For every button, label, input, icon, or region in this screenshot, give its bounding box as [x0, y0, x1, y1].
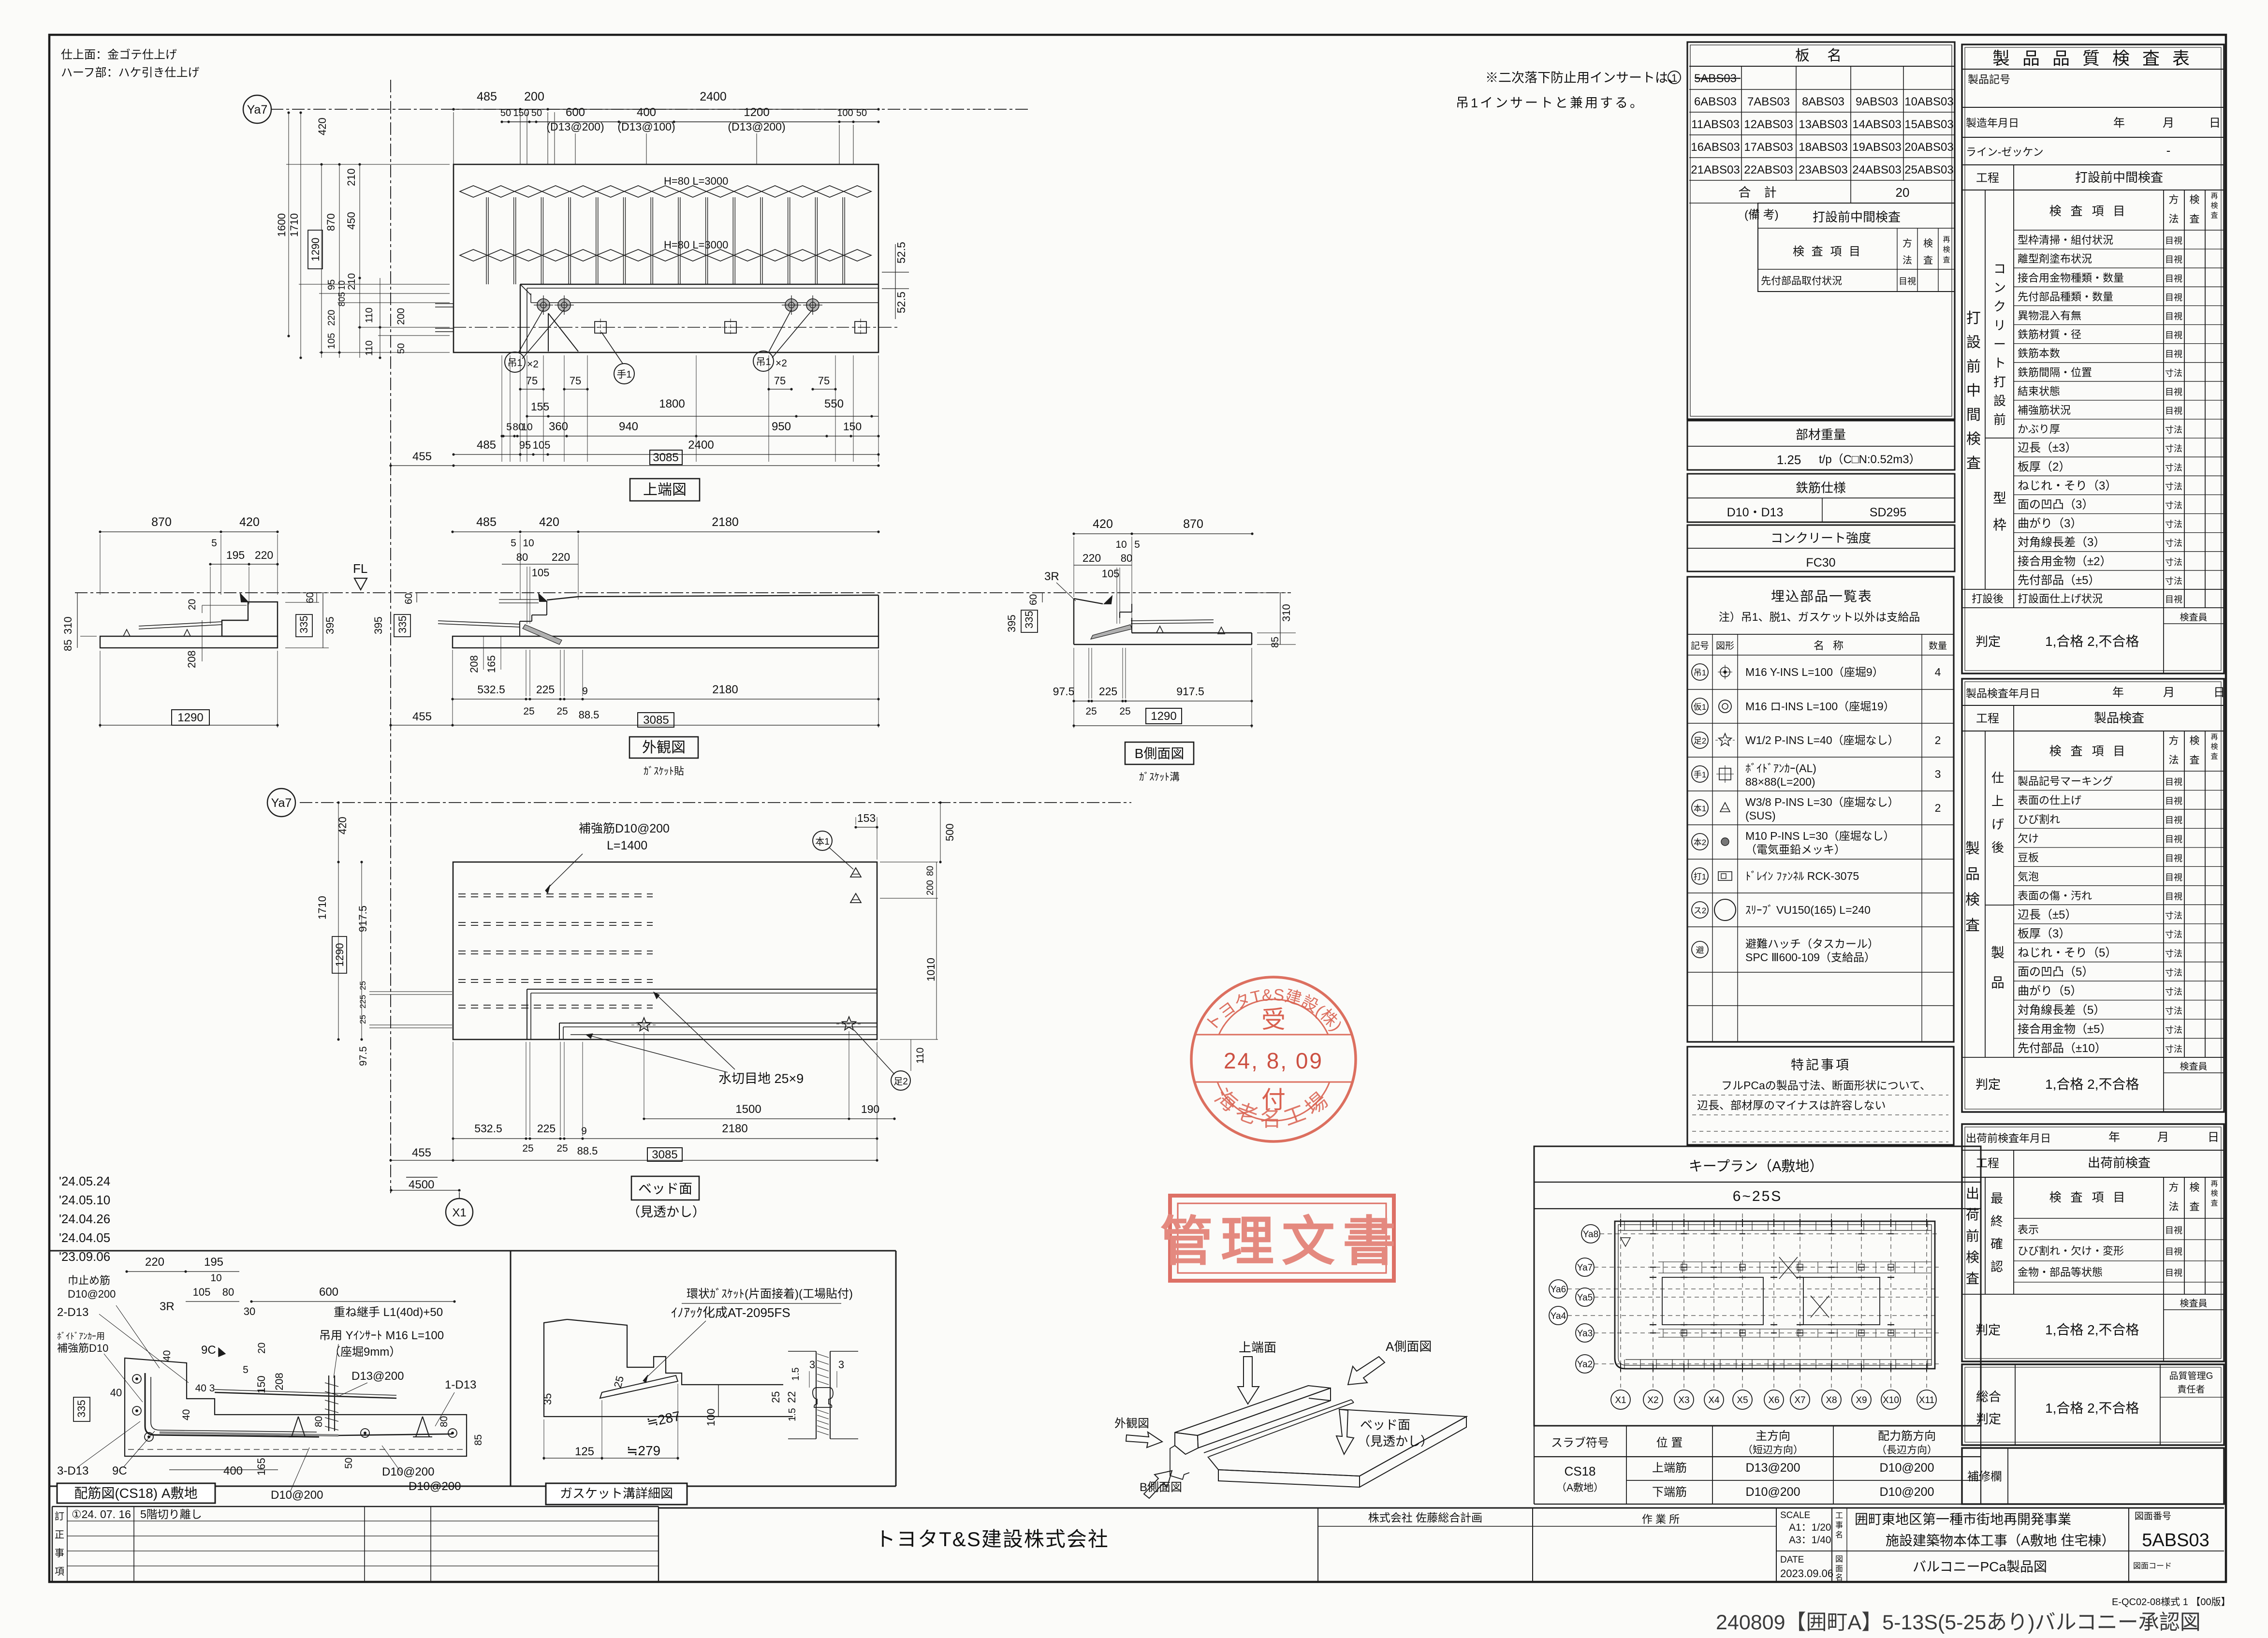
svg-text:方: 方 [2169, 735, 2179, 746]
svg-text:80: 80 [439, 1416, 450, 1427]
svg-text:ねじれ・そり（5）: ねじれ・そり（5） [2018, 947, 2117, 960]
svg-text:532.5: 532.5 [477, 683, 505, 696]
svg-text:査: 査 [2210, 1199, 2218, 1207]
svg-text:165: 165 [255, 1458, 267, 1476]
svg-text:5: 5 [243, 1364, 249, 1375]
svg-text:153: 153 [857, 812, 876, 824]
svg-text:キープラン（A敷地）: キープラン（A敷地） [1689, 1158, 1824, 1174]
svg-text:25: 25 [556, 1143, 568, 1154]
svg-text:395: 395 [372, 616, 384, 634]
svg-text:コ: コ [1993, 262, 2006, 276]
svg-text:FC30: FC30 [1806, 556, 1835, 570]
svg-text:Ya7: Ya7 [247, 103, 268, 117]
svg-text:補強筋D10: 補強筋D10 [57, 1342, 108, 1354]
svg-text:外観図: 外観図 [642, 740, 686, 756]
svg-text:D13@200: D13@200 [1746, 1461, 1800, 1475]
svg-text:9C: 9C [112, 1464, 127, 1477]
overall judgement box [1962, 1364, 2224, 1445]
svg-text:208: 208 [273, 1373, 285, 1390]
svg-text:310: 310 [62, 616, 74, 634]
svg-text:(SUS): (SUS) [1745, 809, 1776, 822]
svg-text:辺長（±5）: 辺長（±5） [2018, 908, 2077, 921]
svg-text:確: 確 [1990, 1237, 2003, 1251]
svg-text:D10@200: D10@200 [1880, 1461, 1934, 1475]
svg-text:220: 220 [255, 549, 273, 561]
svg-text:1290: 1290 [1151, 710, 1176, 723]
svg-text:1290: 1290 [309, 238, 322, 262]
svg-text:22: 22 [786, 1391, 798, 1403]
svg-text:先付部品（±5）: 先付部品（±5） [2018, 574, 2100, 587]
svg-text:避: 避 [1696, 946, 1704, 955]
svg-text:（長辺方向）: （長辺方向） [1876, 1445, 1937, 1456]
left section view right dims 60/335/395 [285, 592, 336, 648]
svg-text:項: 項 [55, 1566, 64, 1577]
svg-text:目視: 目視 [2165, 331, 2182, 340]
svg-text:目視: 目視 [2165, 595, 2182, 604]
svg-text:検: 検 [2190, 735, 2200, 746]
svg-text:寸法: 寸法 [2165, 930, 2182, 939]
grid bubble Ya7 top [243, 95, 271, 123]
svg-text:出荷前検査: 出荷前検査 [2088, 1155, 2151, 1170]
svg-text:打: 打 [1966, 310, 1981, 326]
svg-text:査: 査 [1923, 255, 1933, 266]
svg-text:870: 870 [151, 515, 172, 529]
svg-text:240809【囲町A】5-13S(5-25あり)バルコニー承: 240809【囲町A】5-13S(5-25あり)バルコニー承認図 [1716, 1611, 2201, 1634]
svg-text:鉄筋仕様: 鉄筋仕様 [1796, 481, 1846, 495]
panel name table outer box [1687, 42, 1955, 419]
svg-text:本1: 本1 [815, 836, 830, 847]
svg-text:5ABS03: 5ABS03 [2142, 1530, 2209, 1550]
svg-text:月: 月 [2163, 117, 2174, 130]
svg-text:目視: 目視 [2165, 892, 2182, 901]
svg-text:Ya8: Ya8 [1583, 1229, 1598, 1240]
svg-text:2180: 2180 [712, 515, 739, 529]
rebar detail concrete outline [125, 1358, 467, 1456]
svg-text:ｶﾞｽｹｯﾄ溝: ｶﾞｽｹｯﾄ溝 [1139, 772, 1180, 783]
svg-text:20: 20 [1896, 185, 1910, 200]
rebar spec box [1687, 474, 1955, 522]
svg-text:接合用金物種類・数量: 接合用金物種類・数量 [2018, 272, 2124, 284]
plan bottom dimension row 5/80/10/360/940/950/150 [500, 420, 879, 438]
svg-text:W3/8 P-INS L=30（座堀なし）: W3/8 P-INS L=30（座堀なし） [1745, 796, 1899, 808]
svg-text:検査員: 検査員 [2180, 1298, 2207, 1309]
svg-text:ス2: ス2 [1694, 906, 1706, 915]
svg-text:位 置: 位 置 [1656, 1436, 1683, 1449]
note about secondary-fall-prevention insert [1456, 71, 1681, 110]
svg-text:88.5: 88.5 [579, 709, 600, 721]
svg-text:避難ハッチ（タスカール）: 避難ハッチ（タスカール） [1745, 937, 1879, 950]
svg-text:工程: 工程 [1976, 712, 1999, 725]
svg-text:5: 5 [506, 422, 512, 433]
svg-text:仕: 仕 [1991, 771, 2004, 785]
svg-text:査: 査 [1966, 1271, 1979, 1286]
svg-text:水切目地 25×9: 水切目地 25×9 [718, 1071, 804, 1086]
svg-text:220: 220 [1083, 552, 1101, 564]
svg-text:5: 5 [1134, 539, 1140, 550]
svg-text:鉄筋本数: 鉄筋本数 [2018, 348, 2060, 360]
svg-text:間: 間 [1966, 407, 1981, 423]
isometric arrow and label B-sokumenzu [1140, 1471, 1182, 1498]
svg-text:前: 前 [1966, 359, 1981, 375]
svg-text:設: 設 [1966, 335, 1981, 351]
svg-text:寸法: 寸法 [2165, 557, 2182, 567]
B side view left dims 60/335/395 [1006, 593, 1042, 632]
svg-text:対角線長差（5）: 対角線長差（5） [2018, 1004, 2105, 1017]
svg-text:目視: 目視 [2165, 873, 2182, 882]
plan bottom witness lines [502, 355, 878, 462]
svg-text:SCALE: SCALE [1780, 1510, 1810, 1521]
svg-text:寸法: 寸法 [2165, 949, 2182, 959]
svg-text:先付部品（±10）: 先付部品（±10） [2018, 1042, 2107, 1055]
svg-text:420: 420 [539, 515, 559, 529]
svg-text:目視: 目視 [2165, 1268, 2182, 1278]
svg-text:異物混入有無: 異物混入有無 [2018, 310, 2081, 322]
svg-text:4500: 4500 [409, 1178, 434, 1191]
svg-text:1200: 1200 [744, 106, 769, 119]
svg-text:25: 25 [358, 981, 367, 990]
svg-text:24, 8, 09: 24, 8, 09 [1224, 1048, 1323, 1073]
svg-text:X2: X2 [1647, 1395, 1658, 1405]
tsuri1 x2 leader label right [753, 309, 813, 371]
revision table [52, 1506, 658, 1581]
svg-text:前: 前 [1993, 412, 2006, 427]
svg-text:査: 査 [2190, 214, 2200, 225]
svg-text:※二次落下防止用インサートは、: ※二次落下防止用インサートは、 [1485, 71, 1681, 85]
svg-text:検: 検 [1966, 431, 1981, 447]
svg-text:寸法: 寸法 [2165, 463, 2182, 472]
svg-text:品: 品 [1965, 866, 1980, 882]
svg-text:600: 600 [319, 1286, 338, 1299]
bed view ashi2 leader [854, 1030, 910, 1090]
svg-text:法: 法 [2169, 1201, 2179, 1213]
svg-text:ベッド面: ベッド面 [1360, 1418, 1410, 1432]
svg-text:85: 85 [473, 1434, 484, 1446]
plan view rebar diamond row 1 H=80 L=3000 [460, 175, 871, 197]
svg-text:1,合格 2,不合格: 1,合格 2,不合格 [2045, 634, 2139, 649]
svg-text:目視: 目視 [2165, 312, 2182, 322]
svg-text:420: 420 [239, 515, 260, 529]
svg-text:埋込部品一覧表: 埋込部品一覧表 [1771, 589, 1873, 604]
svg-text:X10: X10 [1883, 1395, 1899, 1405]
svg-text:日: 日 [2208, 1131, 2219, 1144]
svg-text:L=1400: L=1400 [607, 839, 647, 852]
svg-text:図面番号: 図面番号 [2135, 1511, 2171, 1521]
plan bottom dimension row 485/95/105/2400 [452, 439, 879, 456]
svg-text:再: 再 [2210, 1180, 2218, 1188]
svg-text:52.5: 52.5 [895, 242, 907, 263]
svg-text:25: 25 [1085, 706, 1097, 717]
svg-text:220: 220 [145, 1256, 164, 1269]
rebar detail dims top [125, 1256, 455, 1378]
svg-text:打設後: 打設後 [1972, 593, 2004, 605]
svg-text:9ABS03: 9ABS03 [1856, 95, 1898, 108]
embedded parts list table [1687, 577, 1954, 1042]
svg-text:455: 455 [412, 710, 432, 723]
svg-text:Ya7: Ya7 [1577, 1263, 1593, 1273]
svg-text:805: 805 [337, 292, 347, 307]
svg-text:上: 上 [1991, 794, 2004, 808]
svg-text:165: 165 [485, 655, 497, 673]
svg-text:1600: 1600 [276, 213, 288, 237]
svg-text:Ya2: Ya2 [1577, 1360, 1593, 1370]
isometric arrow and label bed-men [1336, 1409, 1433, 1454]
svg-text:X1: X1 [452, 1206, 466, 1219]
rebar detail bar section circles [132, 1375, 457, 1441]
grid line Ya7 (bed view chain line) [300, 802, 1131, 803]
svg-text:2400: 2400 [688, 439, 714, 452]
svg-text:870: 870 [1183, 517, 1203, 531]
left section view bottom dim 1290 [99, 651, 278, 728]
svg-text:1,合格 2,不合格: 1,合格 2,不合格 [2045, 1077, 2139, 1092]
svg-text:13ABS03: 13ABS03 [1799, 118, 1847, 131]
svg-text:日: 日 [2213, 686, 2225, 699]
svg-text:目視: 目視 [2165, 815, 2182, 825]
svg-text:105: 105 [532, 567, 550, 579]
plan view vertical rebars [486, 197, 845, 284]
svg-text:寸法: 寸法 [2165, 1044, 2182, 1054]
svg-text:150: 150 [843, 420, 862, 433]
svg-text:接合用金物（±2）: 接合用金物（±2） [2018, 555, 2112, 568]
svg-text:日: 日 [2209, 117, 2221, 130]
svg-text:195: 195 [204, 1256, 223, 1269]
svg-text:80: 80 [222, 1286, 234, 1298]
svg-text:'24.04.26: '24.04.26 [59, 1212, 110, 1226]
svg-text:検査員: 検査員 [2180, 1061, 2207, 1072]
svg-text:X11: X11 [1919, 1395, 1934, 1405]
isometric sketch of panel [1170, 1386, 1466, 1487]
svg-text:1500: 1500 [735, 1103, 761, 1116]
special notes box [1687, 1047, 1954, 1145]
svg-text:コンクリート強度: コンクリート強度 [1771, 531, 1871, 545]
svg-text:ク: ク [1993, 299, 2006, 314]
plan view rebar diamond row 2 H=80 L=3000 [460, 239, 871, 261]
svg-text:法: 法 [2169, 214, 2179, 225]
svg-text:75: 75 [774, 375, 786, 387]
gasket detail left profile [544, 1319, 793, 1417]
svg-text:対角線長差（3）: 対角線長差（3） [2018, 536, 2105, 549]
svg-text:5: 5 [511, 538, 516, 549]
isometric arrow and label gaikanzu [1114, 1417, 1162, 1448]
svg-text:検: 検 [2210, 743, 2218, 751]
svg-text:t/p（C□N:0.52m3）: t/p（C□N:0.52m3） [1819, 453, 1921, 466]
svg-text:3: 3 [809, 1359, 815, 1371]
svg-text:105: 105 [193, 1286, 211, 1298]
svg-text:600: 600 [566, 106, 585, 119]
svg-text:3085: 3085 [652, 1148, 677, 1161]
svg-text:×2: ×2 [776, 358, 787, 369]
svg-text:225: 225 [536, 683, 555, 696]
svg-text:上端筋: 上端筋 [1652, 1462, 1687, 1475]
svg-text:面の凹凸（3）: 面の凹凸（3） [2018, 498, 2093, 512]
svg-text:ー: ー [1993, 337, 2006, 351]
product quality inspection table section 3 (pre-shipment) [1962, 1124, 2224, 1361]
svg-text:年: 年 [2113, 117, 2125, 130]
svg-text:'24.05.24: '24.05.24 [59, 1174, 110, 1188]
title block form code note [2112, 1596, 2231, 1608]
svg-text:395: 395 [324, 616, 336, 634]
svg-text:型枠清掃・組付状況: 型枠清掃・組付状況 [2018, 234, 2113, 246]
svg-text:×2: ×2 [527, 359, 539, 370]
bed view right dims 153/500/200/80/1010/110 [854, 801, 956, 1071]
B side view body [1074, 596, 1252, 644]
svg-text:検: 検 [2190, 194, 2200, 205]
B side view bottom dim 1290 [1072, 648, 1253, 728]
svg-text:気泡: 気泡 [2018, 871, 2039, 883]
svg-text:検 査 項 目: 検 査 項 目 [2049, 1191, 2128, 1204]
svg-text:フルPCaの製品寸法、断面形状について、: フルPCaの製品寸法、断面形状について、 [1721, 1079, 1931, 1092]
svg-text:離型剤塗布状況: 離型剤塗布状況 [2018, 253, 2092, 265]
plan top dimension row 50/150/50/600/400/1200/100/50 [500, 106, 880, 133]
svg-text:巾止め筋: 巾止め筋 [68, 1274, 110, 1287]
svg-text:1010: 1010 [925, 958, 937, 981]
svg-text:80: 80 [1121, 552, 1132, 564]
svg-text:225: 225 [537, 1122, 556, 1135]
svg-text:1,合格 2,不合格: 1,合格 2,不合格 [2045, 1401, 2139, 1416]
gasket detail dims [541, 1375, 717, 1460]
svg-text:吊1インサートと兼用する。: 吊1インサートと兼用する。 [1456, 96, 1645, 110]
svg-text:法: 法 [1902, 255, 1912, 266]
svg-text:97.5: 97.5 [1053, 685, 1075, 698]
svg-text:製品記号: 製品記号 [1968, 73, 2010, 86]
svg-text:板 名: 板 名 [1795, 48, 1848, 64]
svg-text:10: 10 [337, 280, 347, 290]
FL chain line across section views [75, 592, 1291, 593]
bed view left dims [316, 801, 452, 1066]
svg-text:検 査 項 目: 検 査 項 目 [2049, 205, 2128, 218]
gasket detail enclosure box [511, 1251, 896, 1486]
grid bubble Ya7 bed view [267, 789, 295, 817]
svg-text:補修欄: 補修欄 [1967, 1470, 2002, 1483]
svg-text:E-QC02-08様式 1 【00版】: E-QC02-08様式 1 【00版】 [2112, 1596, 2231, 1608]
svg-text:検 査 項 目: 検 査 項 目 [1793, 245, 1862, 258]
front elevation top dims 485/420/2180 [451, 515, 879, 624]
bed view mizukiri joint label [586, 992, 804, 1086]
svg-text:仕上面：金ゴテ仕上げ: 仕上面：金ゴテ仕上げ [61, 48, 177, 61]
svg-text:220: 220 [326, 310, 337, 326]
svg-text:50: 50 [856, 108, 867, 118]
key plan interior ticks [1618, 1221, 1931, 1369]
svg-text:485: 485 [476, 515, 497, 529]
svg-text:打設前中間検査: 打設前中間検査 [2075, 170, 2163, 185]
svg-text:1710: 1710 [288, 213, 300, 237]
svg-text:Ya6: Ya6 [1551, 1285, 1566, 1295]
svg-text:主方向: 主方向 [1756, 1430, 1790, 1443]
svg-text:品: 品 [1991, 975, 2005, 990]
rebar detail title box [57, 1483, 215, 1503]
svg-text:げ: げ [1991, 817, 2004, 832]
svg-text:板厚（2）: 板厚（2） [2018, 460, 2070, 473]
plan bottom dimension row 155/1800/550 [526, 397, 878, 418]
control document stamp [1160, 1196, 1404, 1281]
received stamp circular [1191, 977, 1356, 1141]
hanging insert tsuri1 symbols in plan [534, 295, 822, 315]
gasket detail title box [546, 1483, 687, 1505]
svg-text:25: 25 [523, 706, 534, 717]
svg-text:85: 85 [1270, 637, 1281, 648]
B side view 3R label [1044, 570, 1076, 601]
svg-text:D10@200: D10@200 [271, 1489, 323, 1502]
gasket detail labels [643, 1287, 853, 1383]
title block scale and date [1780, 1510, 1843, 1582]
svg-text:25ABS03: 25ABS03 [1904, 163, 1953, 176]
bed view outline [453, 862, 877, 1039]
svg-text:目視: 目視 [2165, 834, 2182, 844]
svg-text:寸法: 寸法 [2165, 501, 2182, 511]
svg-text:本2: 本2 [1694, 838, 1706, 847]
svg-text:1: 1 [1671, 72, 1677, 84]
svg-text:（座堀9mm）: （座堀9mm） [329, 1345, 401, 1359]
svg-text:11ABS03: 11ABS03 [1691, 118, 1740, 131]
svg-text:先付部品種類・数量: 先付部品種類・数量 [2018, 291, 2113, 303]
svg-text:1710: 1710 [316, 896, 328, 920]
svg-text:SD295: SD295 [1870, 506, 1906, 519]
svg-text:製品検査: 製品検査 [2094, 711, 2144, 725]
svg-text:リ: リ [1993, 318, 2006, 333]
svg-text:製: 製 [1965, 841, 1980, 857]
svg-text:210: 210 [346, 273, 357, 290]
svg-text:前: 前 [1966, 1228, 1979, 1243]
svg-text:40 3: 40 3 [195, 1383, 215, 1394]
svg-text:査: 査 [2190, 755, 2200, 766]
svg-text:110: 110 [915, 1048, 926, 1064]
svg-text:付: 付 [1261, 1086, 1286, 1113]
svg-text:打設前中間検査: 打設前中間検査 [1813, 210, 1901, 224]
svg-text:19ABS03: 19ABS03 [1852, 141, 1901, 154]
svg-text:検: 検 [1943, 246, 1950, 254]
title block frame [658, 1508, 2224, 1582]
svg-text:208: 208 [468, 655, 480, 673]
svg-text:判定: 判定 [1976, 1412, 2001, 1426]
plan view title box jouzu [630, 479, 700, 501]
svg-text:2180: 2180 [722, 1122, 747, 1135]
svg-text:195: 195 [226, 549, 245, 561]
svg-text:455: 455 [412, 450, 432, 463]
svg-text:80: 80 [516, 551, 528, 563]
svg-text:査: 査 [1943, 256, 1950, 264]
svg-text:数量: 数量 [1929, 641, 1947, 651]
svg-text:図形: 図形 [1716, 641, 1734, 651]
svg-text:3085: 3085 [653, 451, 678, 464]
te1 leader label [601, 332, 634, 384]
svg-text:50: 50 [343, 1458, 354, 1469]
plan bottom dimension row 455/3085 [389, 450, 879, 467]
key plan grid lines X [1621, 1214, 1927, 1388]
svg-text:B側面図: B側面図 [1135, 746, 1185, 761]
svg-text:管理文書: 管理文書 [1160, 1212, 1404, 1272]
svg-text:寸法: 寸法 [2165, 425, 2182, 435]
svg-text:75: 75 [818, 375, 830, 387]
svg-text:A1：1/20: A1：1/20 [1789, 1522, 1831, 1533]
svg-text:60: 60 [403, 593, 414, 604]
svg-text:6ABS03: 6ABS03 [1694, 95, 1737, 108]
svg-text:X4: X4 [1708, 1395, 1720, 1405]
bed view bottom dim 455/3085 [389, 1146, 878, 1162]
svg-text:検: 検 [2190, 1182, 2200, 1193]
svg-text:先付部品取付状況: 先付部品取付状況 [1761, 276, 1842, 287]
svg-text:工程: 工程 [1976, 172, 1999, 185]
svg-text:査: 査 [2190, 1201, 2200, 1213]
plan top dimension row 485/200/2400 [452, 90, 879, 111]
svg-text:バルコニーPCa製品図: バルコニーPCa製品図 [1913, 1559, 2047, 1574]
svg-text:40: 40 [161, 1350, 173, 1361]
svg-text:310: 310 [1280, 604, 1292, 622]
svg-text:CS18: CS18 [1564, 1464, 1595, 1478]
svg-text:25: 25 [522, 1143, 533, 1154]
svg-text:D10@200: D10@200 [68, 1288, 116, 1300]
key plan grid lines Ya [1567, 1234, 1939, 1364]
svg-text:'24.04.05: '24.04.05 [59, 1230, 110, 1245]
finish note top-left [61, 48, 200, 79]
